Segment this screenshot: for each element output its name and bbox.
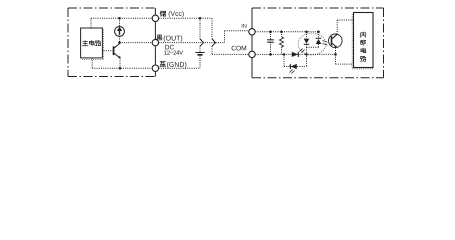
svg-text:IN: IN <box>241 24 247 30</box>
svg-text:(OUT): (OUT) <box>163 36 182 43</box>
svg-text:(GND): (GND) <box>167 62 187 69</box>
svg-text:12~24V: 12~24V <box>164 51 183 57</box>
svg-text:COM: COM <box>231 45 247 52</box>
svg-text:(Vcc): (Vcc) <box>168 11 184 18</box>
